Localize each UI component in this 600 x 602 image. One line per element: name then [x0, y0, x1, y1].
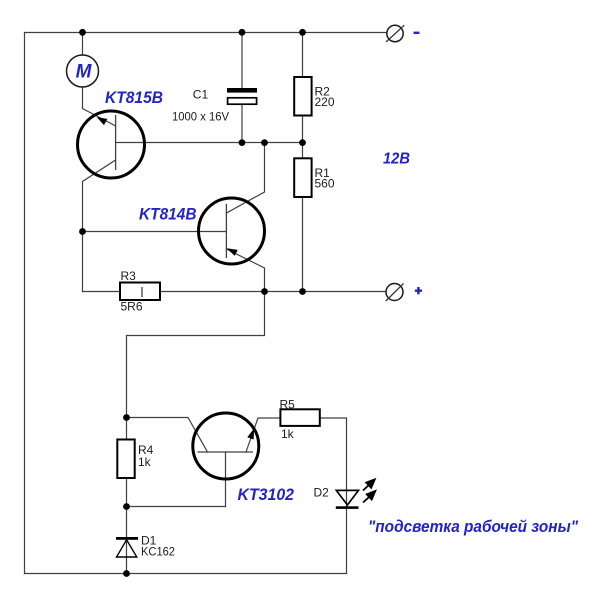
- terminal minus: [386, 25, 420, 42]
- zener diode D1 KC162: [116, 534, 175, 559]
- resistor R4: [117, 440, 153, 479]
- wire bottom rail: [25, 573, 347, 575]
- svg-text:KT814B: KT814B: [139, 205, 197, 224]
- resistor R2: [294, 77, 335, 116]
- wire Q3 left lead: [127, 418, 208, 453]
- svg-text:M: M: [76, 62, 93, 83]
- wire R2 top lead: [302, 33, 304, 78]
- capacitor C1: [172, 88, 257, 124]
- resistor R1: [294, 158, 335, 197]
- svg-text:R3: R3: [121, 269, 137, 283]
- wire step down to Q3 stage: [127, 292, 265, 418]
- wire left rail: [24, 33, 26, 574]
- wire plus rail: [83, 291, 386, 293]
- terminal plus: [386, 283, 422, 301]
- wire C1 top lead: [241, 33, 243, 89]
- node D1 bottom: [123, 570, 130, 577]
- node R4 bottom: [123, 503, 130, 510]
- svg-text:1000 x 16V: 1000 x 16V: [172, 109, 229, 123]
- svg-text:R5: R5: [280, 397, 296, 411]
- svg-text:1k: 1k: [281, 427, 295, 441]
- transistor Q1 KT815B: [78, 88, 164, 178]
- wire D1 leads: [126, 507, 128, 574]
- wire motor to Q1 emitter: [83, 87, 116, 126]
- node C1 bottom: [239, 139, 246, 146]
- wire R5 to D2: [320, 418, 347, 508]
- wire Q2 emitter down: [226, 249, 264, 292]
- wire R2-R1 link: [302, 116, 304, 158]
- svg-text:KC162: KC162: [141, 545, 175, 559]
- resistor R5: [280, 397, 320, 441]
- wire Q3 right lead to R5: [246, 418, 280, 452]
- svg-text:12B: 12B: [383, 151, 410, 168]
- svg-text:D2: D2: [314, 485, 330, 499]
- node plus-R1: [299, 288, 306, 295]
- node Q2 base tap: [79, 228, 86, 235]
- wire R4 leads: [126, 418, 128, 507]
- wire R1 bottom lead: [302, 197, 304, 292]
- svg-text:KT3102: KT3102: [238, 485, 295, 504]
- node top-motor: [79, 29, 86, 36]
- wire Q3 base lead down: [225, 452, 227, 507]
- svg-text:C1: C1: [193, 88, 209, 102]
- wire top rail: [25, 32, 387, 34]
- wire Q3 bottom to R4: [127, 506, 226, 508]
- wire D2 to bottom rail: [346, 508, 348, 574]
- wire motor top lead: [82, 33, 84, 56]
- transistor Q2 KT814B: [139, 198, 265, 264]
- wire C1 bottom lead: [241, 105, 243, 143]
- svg-text:KT815B: KT815B: [105, 88, 163, 107]
- node R2-R1: [299, 139, 306, 146]
- svg-text:220: 220: [315, 95, 335, 109]
- svg-text:560: 560: [315, 177, 335, 191]
- node Q2 collector: [261, 139, 268, 146]
- wire Q1 collector down left column: [83, 160, 116, 292]
- resistor R3: [120, 269, 160, 314]
- svg-text:"подсветка рабочей зоны": "подсветка рабочей зоны": [368, 517, 579, 536]
- node R4 top: [123, 414, 130, 421]
- transistor Q3 KT3102: [193, 413, 295, 504]
- motor M1: [67, 55, 99, 87]
- wire Q2 base: [83, 231, 227, 233]
- node top-R2: [299, 29, 306, 36]
- svg-text:5R6: 5R6: [121, 300, 143, 314]
- node top-C1: [239, 29, 246, 36]
- wire Q1 base to node: [116, 142, 303, 144]
- LED D2: [314, 485, 359, 509]
- wire Q2 collector up: [226, 143, 264, 214]
- LED D2 emission arrows: [363, 479, 375, 502]
- node plus-left: [261, 288, 268, 295]
- svg-text:1k: 1k: [138, 455, 152, 469]
